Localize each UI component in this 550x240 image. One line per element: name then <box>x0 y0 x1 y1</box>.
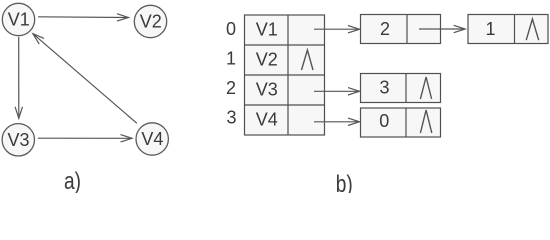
svg-text:0: 0 <box>226 19 236 39</box>
svg-text:V3: V3 <box>7 130 29 150</box>
svg-text:3: 3 <box>226 108 236 128</box>
svg-text:1: 1 <box>226 48 236 68</box>
svg-text:V4: V4 <box>141 129 163 149</box>
svg-text:0: 0 <box>379 111 389 131</box>
svg-text:a): a) <box>64 168 81 193</box>
svg-text:2: 2 <box>226 78 236 98</box>
svg-text:2: 2 <box>380 19 390 39</box>
svg-text:3: 3 <box>379 77 389 97</box>
svg-text:b): b) <box>336 171 353 193</box>
svg-text:V1: V1 <box>256 19 278 39</box>
svg-text:V3: V3 <box>256 79 278 99</box>
svg-text:V2: V2 <box>140 12 162 32</box>
svg-text:V4: V4 <box>256 109 278 129</box>
svg-text:V2: V2 <box>256 49 278 69</box>
svg-text:1: 1 <box>485 19 495 39</box>
svg-text:V1: V1 <box>8 9 30 29</box>
